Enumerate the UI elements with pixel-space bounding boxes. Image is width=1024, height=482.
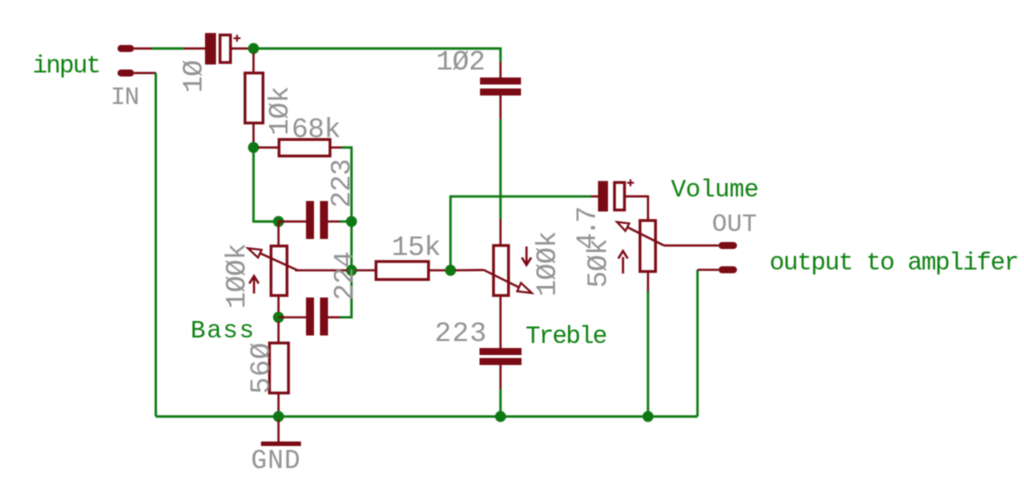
- svg-text:OUT: OUT: [712, 210, 757, 239]
- capacitor C2 223 right plate: [320, 201, 328, 239]
- resistor R1 10k body: [245, 73, 263, 123]
- wire vertical net green N4 to N5: [350, 222, 352, 271]
- wire volume wiper to P3 red: [664, 244, 719, 246]
- wire volume bottom to bus green: [647, 291, 649, 417]
- wire N2 to bass corner green: [254, 148, 275, 222]
- wire bass pot bottom lead red: [277, 296, 279, 314]
- capacitor C4 102 top plate: [480, 78, 521, 85]
- node N2 junction: [248, 142, 259, 153]
- capacitor C6 223 bottom plate: [480, 358, 522, 365]
- wire C5 left lead red: [591, 195, 598, 197]
- svg-text:GND: GND: [251, 446, 301, 476]
- capacitor C6 223 top plate: [480, 348, 522, 355]
- wire C2 right lead red: [328, 220, 340, 222]
- wire volume pot bottom lead red: [647, 272, 649, 292]
- capacitor C3 224 right plate: [320, 298, 328, 336]
- svg-text:5Øk: 5Øk: [584, 239, 615, 288]
- wire net input green: [152, 47, 184, 49]
- wire 560 bottom lead red: [277, 393, 279, 412]
- svg-text:223: 223: [435, 319, 488, 350]
- svg-text:output to amplifer: output to amplifer: [770, 249, 1018, 278]
- wire 15k left lead red: [356, 269, 376, 271]
- svg-text:1ØØk: 1ØØk: [223, 244, 254, 309]
- wire bus riser to P4 green: [696, 270, 698, 417]
- capacitor C5 hollow plate: [615, 183, 625, 211]
- pin P3 OUT terminal: [722, 242, 734, 249]
- svg-text:Bass: Bass: [191, 317, 256, 346]
- pin P2 input IN terminal: [121, 70, 131, 77]
- resistor R4 15k body: [376, 262, 429, 280]
- potentiometer Volume wiper line red: [627, 227, 664, 245]
- capacitor C1 plus sign: [234, 35, 241, 42]
- wire N8 up and right to C5 green: [451, 196, 592, 265]
- wire 560 top lead red: [277, 322, 279, 344]
- resistor R5 560 body: [270, 343, 289, 393]
- wire P2 lead red: [134, 72, 156, 74]
- potentiometer Volume wiper arrowhead: [617, 222, 629, 231]
- wire top rail green: [254, 49, 501, 63]
- wire C5 right lead red to pot top: [625, 196, 649, 220]
- capacitor C5 4.7u solid plate: [598, 181, 608, 212]
- wire R1 bottom lead red: [252, 123, 254, 143]
- potentiometer Treble direction arrow down: [522, 247, 531, 266]
- wire bass wiper to N5 red: [295, 269, 347, 271]
- potentiometer Treble wiper arrowhead: [517, 283, 532, 293]
- svg-text:56Ø: 56Ø: [247, 342, 278, 394]
- wire IN riser green: [155, 73, 157, 417]
- potentiometer Treble wiper line red: [484, 270, 520, 288]
- potentiometer Treble 100k body: [494, 246, 509, 296]
- wire C4 top lead red: [499, 62, 501, 78]
- svg-text:input: input: [33, 52, 100, 81]
- capacitor C1 hollow plate: [220, 35, 231, 63]
- capacitor C4 102 bottom plate: [480, 89, 521, 96]
- wire C6 bottom lead red: [499, 365, 501, 389]
- node N7 junction on ground bus: [273, 411, 284, 422]
- svg-text:1ØØk: 1ØØk: [533, 231, 564, 296]
- node N1 junction: [248, 43, 259, 54]
- wire R2 right lead red: [330, 146, 342, 148]
- svg-text:1Ø2: 1Ø2: [436, 48, 485, 79]
- svg-text:Volume: Volume: [671, 176, 759, 205]
- ground symbol bar: [261, 442, 301, 447]
- potentiometer Bass wiper line red: [260, 253, 298, 270]
- wire bass pot top lead red: [277, 222, 279, 247]
- wire vertical net green N5 down to C3 corner: [340, 270, 352, 317]
- capacitor C3 224 left plate: [306, 298, 314, 336]
- wire 15k right lead red: [429, 269, 447, 271]
- wire C1 right lead red: [231, 47, 249, 49]
- wire treble pot bottom lead red: [499, 296, 501, 349]
- wire C3 right lead red: [328, 316, 340, 318]
- pin P1 input top terminal: [121, 45, 131, 52]
- node N4 junction: [346, 216, 357, 227]
- wire C6 to bus green: [499, 389, 501, 417]
- potentiometer Bass 100k body: [271, 246, 287, 296]
- svg-text:15k: 15k: [392, 233, 441, 264]
- wire C2 left lead red: [279, 220, 307, 222]
- wire C3 left lead red: [279, 316, 307, 318]
- capacitor C2 223 left plate: [306, 201, 314, 239]
- potentiometer Bass direction arrow up: [249, 276, 258, 294]
- wire C1 left lead red: [184, 47, 205, 49]
- wire treble wiper feed red: [455, 269, 484, 271]
- svg-text:224: 224: [331, 252, 362, 301]
- capacitor C1 10u polarized: solid plate: [205, 33, 216, 65]
- node N9 junction on bus: [495, 411, 506, 422]
- wire C2 to vertical net green: [340, 220, 352, 222]
- wire treble pot top lead red: [499, 219, 501, 246]
- potentiometer Volume 50k body: [640, 221, 656, 272]
- wire ground bus green: [156, 415, 698, 417]
- node N6 junction below bass pot: [273, 312, 284, 323]
- wire P1 lead red: [134, 47, 152, 49]
- node N5 junction: [346, 265, 357, 276]
- svg-text:223: 223: [328, 159, 359, 208]
- svg-text:IN: IN: [111, 83, 139, 112]
- potentiometer Volume direction arrow up: [618, 251, 627, 274]
- node N3 junction above bass pot: [273, 216, 284, 227]
- capacitor C5 plus sign: [627, 179, 634, 186]
- wire 68k to C2 net green: [342, 148, 352, 217]
- wire R1 top lead red: [252, 53, 254, 73]
- potentiometer Bass wiper arrowhead: [248, 248, 262, 257]
- node N8 junction: [445, 265, 456, 276]
- wire GND stub red: [277, 420, 279, 442]
- wire R2 left lead red: [258, 146, 279, 148]
- node N10 junction on bus: [643, 411, 654, 422]
- wire treble top net green: [499, 119, 501, 219]
- wire P4 lead red: [698, 269, 719, 271]
- resistor R2 68k body: [279, 140, 330, 157]
- wire C4 bottom lead red: [499, 96, 501, 120]
- svg-text:1Ø: 1Ø: [180, 60, 211, 93]
- pin P4 output bottom terminal: [722, 266, 734, 273]
- svg-text:68k: 68k: [292, 115, 341, 146]
- svg-text:Treble: Treble: [526, 322, 607, 351]
